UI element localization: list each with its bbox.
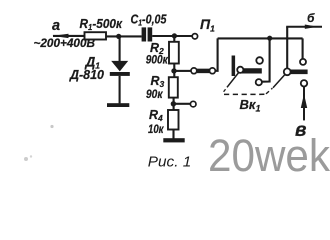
svg-text:R1-500к: R1-500к — [80, 16, 124, 32]
junction dot R2 top — [172, 33, 177, 38]
wire junction down to lower contact — [261, 38, 269, 81]
capacitor C1 — [142, 27, 153, 41]
switch right pole lower contact circle — [301, 80, 307, 86]
junction dot diode branch — [116, 34, 121, 39]
svg-text:20wek: 20wek — [208, 130, 330, 178]
junction dot R3-R4 — [171, 101, 176, 106]
terminal v arrow head — [301, 94, 307, 108]
connector pin circle left — [191, 68, 197, 74]
capacitor C1 value label — [131, 13, 168, 28]
diode D1 type label D-810 — [69, 67, 105, 82]
connector pin circle right — [210, 68, 216, 74]
switch left pole bridge bar — [240, 68, 261, 73]
switch right pole bridge bar — [288, 69, 308, 74]
junction dot on bus A — [267, 36, 272, 41]
resistor R2 label — [150, 41, 164, 56]
svg-text:б: б — [307, 11, 315, 25]
switch left pole moving bar — [232, 56, 236, 77]
wire R2 bottom to R3 top — [173, 64, 175, 78]
input voltage label ~200-400V — [34, 38, 96, 50]
lower connector pin circle — [190, 101, 196, 107]
svg-text:900к: 900к — [146, 55, 169, 67]
resistor R3 value 90k — [146, 89, 164, 101]
scan speck 2 — [24, 155, 32, 161]
switch right pole upper contact circle — [300, 59, 306, 65]
switch left lever — [224, 72, 239, 91]
caption Ris. 1 — [148, 154, 192, 171]
switch left pole upper contact circle — [256, 57, 263, 64]
switch left pole pivot circle — [237, 67, 243, 73]
connector bridge bar — [197, 69, 210, 74]
ground under R4 — [163, 138, 184, 142]
resistor R4 — [168, 110, 179, 130]
wire capacitor to P1 terminal — [152, 35, 192, 37]
resistor R1 — [85, 32, 107, 39]
switch left pole lower contact circle — [256, 79, 262, 85]
svg-text:Вк1: Вк1 — [240, 97, 261, 114]
resistor R4 label — [149, 108, 163, 123]
diode D1 label — [85, 55, 101, 71]
node a label — [52, 18, 60, 34]
switch right lever — [273, 75, 285, 88]
wire connector up to bus A — [215, 38, 217, 70]
terminal B label — [307, 11, 315, 25]
bus wire A top horizontal — [218, 37, 303, 39]
svg-text:R4: R4 — [149, 108, 163, 123]
svg-text:П1: П1 — [200, 16, 215, 34]
terminal v label — [295, 120, 306, 141]
svg-text:Д-810: Д-810 — [69, 67, 105, 82]
resistor R1 value label R1-500k — [80, 16, 124, 32]
node a input arrow — [52, 34, 84, 38]
wire B vertical to right pivot — [286, 27, 288, 69]
watermark 20wek — [208, 130, 330, 181]
terminal P1 label — [200, 16, 215, 34]
wire R2 top stub — [173, 36, 175, 42]
resistor R2 value 900k — [146, 55, 169, 67]
wire R1 to capacitor — [106, 35, 142, 37]
wire junction to diode — [119, 36, 121, 61]
switch linkage dashed line — [224, 88, 272, 94]
svg-text:Рис. 1: Рис. 1 — [148, 154, 192, 171]
switch right pole pivot circle — [284, 68, 291, 75]
resistor R3 — [169, 77, 178, 97]
wire lower contact down — [303, 87, 305, 121]
terminal P1 circle — [192, 34, 197, 39]
wire junction to lower pin — [175, 103, 191, 105]
resistor R3 label — [151, 74, 165, 89]
diode D1 — [110, 61, 130, 104]
svg-text:90к: 90к — [146, 89, 164, 101]
switch label Vk1 — [240, 97, 261, 114]
resistor R4 value 10k — [148, 124, 164, 136]
scan speck 1 — [50, 125, 53, 128]
terminal B arrow — [286, 25, 322, 29]
wire R4 to ground — [172, 130, 174, 139]
ground under diode — [107, 103, 129, 107]
svg-text:а: а — [52, 18, 60, 34]
resistor R2 — [169, 42, 179, 64]
svg-text:R3: R3 — [151, 74, 165, 89]
wire R3 bottom to R4 top — [173, 98, 175, 110]
svg-text:С1-0,05: С1-0,05 — [131, 13, 168, 28]
junction dot R2-R3 — [171, 68, 176, 73]
wire bus A end down to upper right contact — [302, 38, 304, 59]
svg-text:10к: 10к — [148, 124, 164, 136]
wire junction to connector pin — [175, 70, 191, 72]
